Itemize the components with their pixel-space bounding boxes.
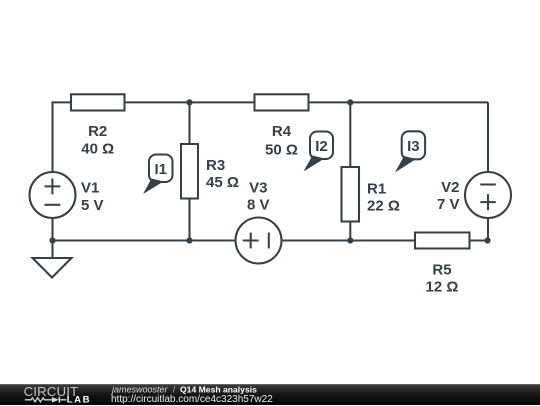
resistor R2 body [71, 94, 125, 110]
CircuitLab logo resistor squiggle [25, 398, 67, 402]
svg-text:8 V: 8 V [247, 197, 270, 214]
V2 minus sign [480, 183, 496, 185]
wire V3 to R5 [282, 239, 416, 241]
V1 minus sign [45, 204, 61, 206]
footer background [0, 384, 540, 405]
footer bar [0, 384, 540, 406]
current probe I3 box [402, 131, 425, 159]
svg-text:LAB: LAB [67, 394, 91, 405]
wire R5 to bottom-right corner [470, 239, 489, 241]
svg-text:I1: I1 [154, 161, 167, 178]
svg-text:jameswooster: jameswooster [111, 384, 169, 394]
node C junction dot (R3 bottom) [186, 237, 192, 243]
wire top-left corner to R2 [53, 102, 72, 172]
wire R4 to node B [309, 101, 489, 103]
resistor R1 body [342, 167, 360, 222]
probe I3 tail [395, 156, 416, 173]
svg-text:22 Ω: 22 Ω [367, 197, 400, 214]
ground node junction dot [49, 237, 55, 243]
resistor R5 body [415, 233, 470, 249]
svg-text:45 Ω: 45 Ω [206, 174, 239, 191]
probe I2 tail [304, 156, 325, 172]
wire R3 bottom to bottom wire [188, 199, 190, 241]
node D junction dot (R1 bottom) [347, 237, 353, 243]
wire node A down to R3 [188, 102, 190, 144]
svg-text:R1: R1 [367, 181, 386, 198]
current probe I2 box [310, 132, 333, 160]
wire V1 bottom to ground node [51, 218, 53, 241]
V3 plus sign [243, 233, 259, 249]
svg-text:I2: I2 [315, 138, 328, 155]
wire right rail down to V2 [487, 102, 489, 172]
svg-text:12 Ω: 12 Ω [426, 279, 459, 296]
wire R2 to node A [125, 101, 255, 103]
svg-text:50 Ω: 50 Ω [265, 142, 298, 159]
svg-text:R4: R4 [272, 123, 292, 140]
svg-text:V1: V1 [81, 179, 99, 196]
ground symbol [33, 258, 72, 278]
wire R1 bottom to bottom wire [349, 222, 351, 241]
wire node B down to R1 [349, 102, 351, 167]
svg-text:V2: V2 [441, 179, 459, 196]
resistor R4 body [255, 94, 309, 110]
svg-text:5 V: 5 V [81, 197, 104, 214]
svg-text:http://circuitlab.com/ce4c323h: http://circuitlab.com/ce4c323h57w22 [111, 394, 273, 405]
voltage source V3 circle [236, 218, 282, 264]
svg-text:I3: I3 [407, 138, 420, 155]
svg-text:Q14 Mesh analysis: Q14 Mesh analysis [180, 384, 257, 394]
svg-text:R2: R2 [88, 123, 107, 140]
voltage source V2 circle [465, 172, 511, 218]
node E junction dot (bottom right) [484, 237, 490, 243]
node A junction dot [186, 99, 192, 105]
node B junction dot [347, 99, 353, 105]
V2 plus sign [480, 194, 496, 210]
ground lead [51, 241, 53, 259]
current probe I1 box [149, 155, 173, 183]
voltage source V1 circle [30, 172, 76, 218]
V1 plus sign [45, 179, 61, 195]
V3 minus sign (rotated) [268, 233, 270, 249]
resistor R3 body [181, 144, 198, 199]
wire bottom: ground node to V3 [53, 239, 236, 241]
svg-text:R3: R3 [206, 157, 225, 174]
svg-text:40 Ω: 40 Ω [81, 141, 114, 158]
CircuitLab logo diode [52, 397, 59, 403]
svg-text:7 V: 7 V [437, 196, 460, 213]
probe I1 tail [143, 179, 164, 195]
wire V2 bottom to bottom-right corner [487, 218, 489, 241]
svg-text:V3: V3 [249, 179, 267, 196]
svg-text:R5: R5 [432, 262, 451, 279]
